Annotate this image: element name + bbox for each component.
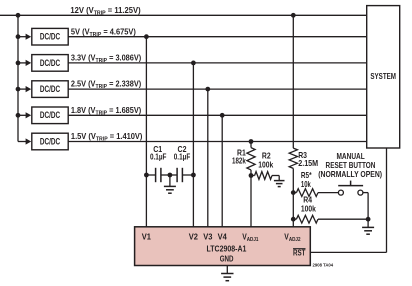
wire V4 sense line <box>221 115 223 227</box>
wire R3 to VADJ2 pin <box>292 168 294 226</box>
capacitor C1 <box>156 168 161 182</box>
wire bus to DC/DC 1 <box>18 34 31 40</box>
svg-text:3.3V (VTRIP = 3.086V): 3.3V (VTRIP = 3.086V) <box>71 53 142 64</box>
wire capacitor ground stem <box>169 175 171 186</box>
node R4 tap <box>291 217 296 222</box>
node 1.5V sense tap <box>249 139 254 144</box>
svg-text:SYSTEM: SYSTEM <box>370 71 396 81</box>
label 2.5V rail <box>71 79 142 90</box>
node 12V bus junction <box>16 13 21 18</box>
svg-text:V4: V4 <box>218 232 228 241</box>
node 1.8V sense tap <box>220 113 225 118</box>
wire VADJ2 to R4 <box>293 218 296 220</box>
resistor R1 <box>247 148 255 170</box>
svg-text:0.1µF: 0.1µF <box>174 152 191 162</box>
svg-text:RST: RST <box>293 249 306 258</box>
wire 1.5V to R1 <box>250 142 252 148</box>
converter DC/DC 5 <box>32 133 68 150</box>
svg-text:DC/DC: DC/DC <box>40 136 61 146</box>
label 2908 TA04 <box>313 262 334 267</box>
label 3.3V rail <box>71 53 142 64</box>
wire 3.3V rail <box>68 62 367 64</box>
pin RST <box>293 249 306 258</box>
resistor R3 <box>289 148 297 168</box>
pin V4 <box>218 232 228 241</box>
wire bus to DC/DC 3 <box>18 86 31 92</box>
svg-text:2.5V (VTRIP = 2.338V): 2.5V (VTRIP = 2.338V) <box>71 79 142 90</box>
svg-text:V2: V2 <box>189 232 198 241</box>
label 12V rail <box>70 6 141 17</box>
label 1.8V rail <box>71 105 142 116</box>
svg-text:100k: 100k <box>258 160 274 170</box>
wire 12V to R3 <box>292 15 294 148</box>
svg-text:182k: 182k <box>232 157 246 166</box>
resistor R4 <box>296 215 318 223</box>
label R1 <box>232 148 246 165</box>
node R4 ground junction <box>366 217 371 222</box>
wire 1.8V rail <box>68 114 367 116</box>
wire bus to DC/DC 5 <box>18 138 31 144</box>
label C1 <box>150 145 167 162</box>
ground button <box>362 227 374 234</box>
pin V3 <box>203 232 213 241</box>
svg-text:2908 TA04: 2908 TA04 <box>313 262 334 267</box>
svg-text:0.1µF: 0.1µF <box>150 152 167 162</box>
label R4 <box>301 195 317 214</box>
node C2 tap on V2 line <box>191 173 196 178</box>
converter DC/DC 4 <box>32 107 68 124</box>
wire 12V rail <box>0 14 367 16</box>
resistor R5 <box>296 189 318 197</box>
node 12V sense tap <box>291 13 296 18</box>
pin VADJ2 <box>284 232 300 243</box>
wire C1 to ground node <box>161 174 170 176</box>
svg-text:DC/DC: DC/DC <box>40 58 61 68</box>
label 5V rail <box>71 27 136 38</box>
label R5 <box>301 170 312 189</box>
pin GND <box>220 255 234 264</box>
svg-text:(NORMALLY OPEN): (NORMALLY OPEN) <box>318 169 382 179</box>
node bus tap 4 <box>16 113 21 118</box>
wire C2 lead right <box>182 174 193 176</box>
IC U1 LTC2908-A1 body <box>135 227 311 266</box>
svg-text:12V (VTRIP = 11.25V): 12V (VTRIP = 11.25V) <box>70 6 141 17</box>
converter DC/DC 1 <box>32 28 68 45</box>
node bus tap 3 <box>16 87 21 92</box>
wire 5V rail <box>68 36 367 38</box>
converter DC/DC 3 <box>32 81 68 98</box>
svg-text:10k: 10k <box>301 181 311 189</box>
resistor R2 <box>255 172 272 180</box>
switch S1 manual reset button <box>338 181 363 196</box>
svg-text:V1: V1 <box>142 232 152 241</box>
svg-text:5V (VTRIP = 4.675V): 5V (VTRIP = 4.675V) <box>71 27 136 38</box>
ground R2 <box>274 181 285 187</box>
svg-text:1.8V (VTRIP = 1.685V): 1.8V (VTRIP = 1.685V) <box>71 105 142 116</box>
wire C1 lead left <box>146 174 155 176</box>
ground capacitors <box>164 186 176 193</box>
wire V1 sense line <box>145 37 147 227</box>
svg-text:2.15M: 2.15M <box>298 158 318 167</box>
svg-text:DC/DC: DC/DC <box>40 84 61 94</box>
node 2.5V sense tap <box>205 87 210 92</box>
wire V3 sense line <box>207 89 209 227</box>
node C1 tap on V1 line <box>144 173 149 178</box>
wire RST to system <box>310 148 386 252</box>
wire IC ground stem <box>226 266 228 274</box>
svg-text:DC/DC: DC/DC <box>40 32 61 42</box>
wire input bus <box>17 15 19 141</box>
wire R4 to ground junction <box>318 218 368 220</box>
node 3.3V sense tap <box>191 61 196 66</box>
wire R5 to button <box>318 192 338 194</box>
block SYSTEM <box>367 6 400 148</box>
capacitor C2 <box>177 168 182 182</box>
wire VADJ1 to R2 <box>251 175 255 177</box>
svg-text:1.5V (VTRIP = 1.410V): 1.5V (VTRIP = 1.410V) <box>71 132 143 143</box>
wire button to ground drop <box>363 193 368 220</box>
svg-text:R5*: R5* <box>301 170 312 180</box>
wire R2 to ground <box>272 176 279 181</box>
wire ground node to C2 <box>170 174 177 176</box>
wire 1.5V rail <box>68 141 367 143</box>
node bus tap 1 <box>16 34 21 39</box>
wire 2.5V rail <box>68 88 367 90</box>
node capacitor ground junction <box>168 173 173 178</box>
label 1.5V rail <box>71 132 143 143</box>
svg-text:DC/DC: DC/DC <box>40 110 61 120</box>
pin V1 <box>142 232 152 241</box>
svg-text:V3: V3 <box>203 232 213 241</box>
svg-text:LTC2908-A1: LTC2908-A1 <box>207 244 248 254</box>
node bus tap 2 <box>16 61 21 66</box>
converter DC/DC 2 <box>32 55 68 72</box>
wire button ground stem <box>367 219 369 227</box>
wire bus to DC/DC 4 <box>18 112 31 118</box>
wire V2 sense line <box>192 63 194 227</box>
label LTC2908-A1 <box>207 244 248 254</box>
label manual reset button <box>318 151 382 179</box>
wire bus to DC/DC 2 <box>18 60 31 66</box>
wire VADJ2 to R5 <box>293 192 296 194</box>
svg-text:GND: GND <box>220 255 234 264</box>
ground IC <box>221 274 233 281</box>
wire R1 to VADJ1 pin <box>250 170 252 227</box>
label C2 <box>174 145 191 162</box>
node VADJ1 divider junction <box>249 173 254 178</box>
node 5V sense tap <box>144 34 149 39</box>
label R2 <box>258 151 274 169</box>
svg-text:100k: 100k <box>301 204 317 214</box>
pin V2 <box>189 232 198 241</box>
pin VADJ1 <box>242 232 258 243</box>
node R5 tap <box>291 190 296 195</box>
label R3 <box>298 150 318 167</box>
